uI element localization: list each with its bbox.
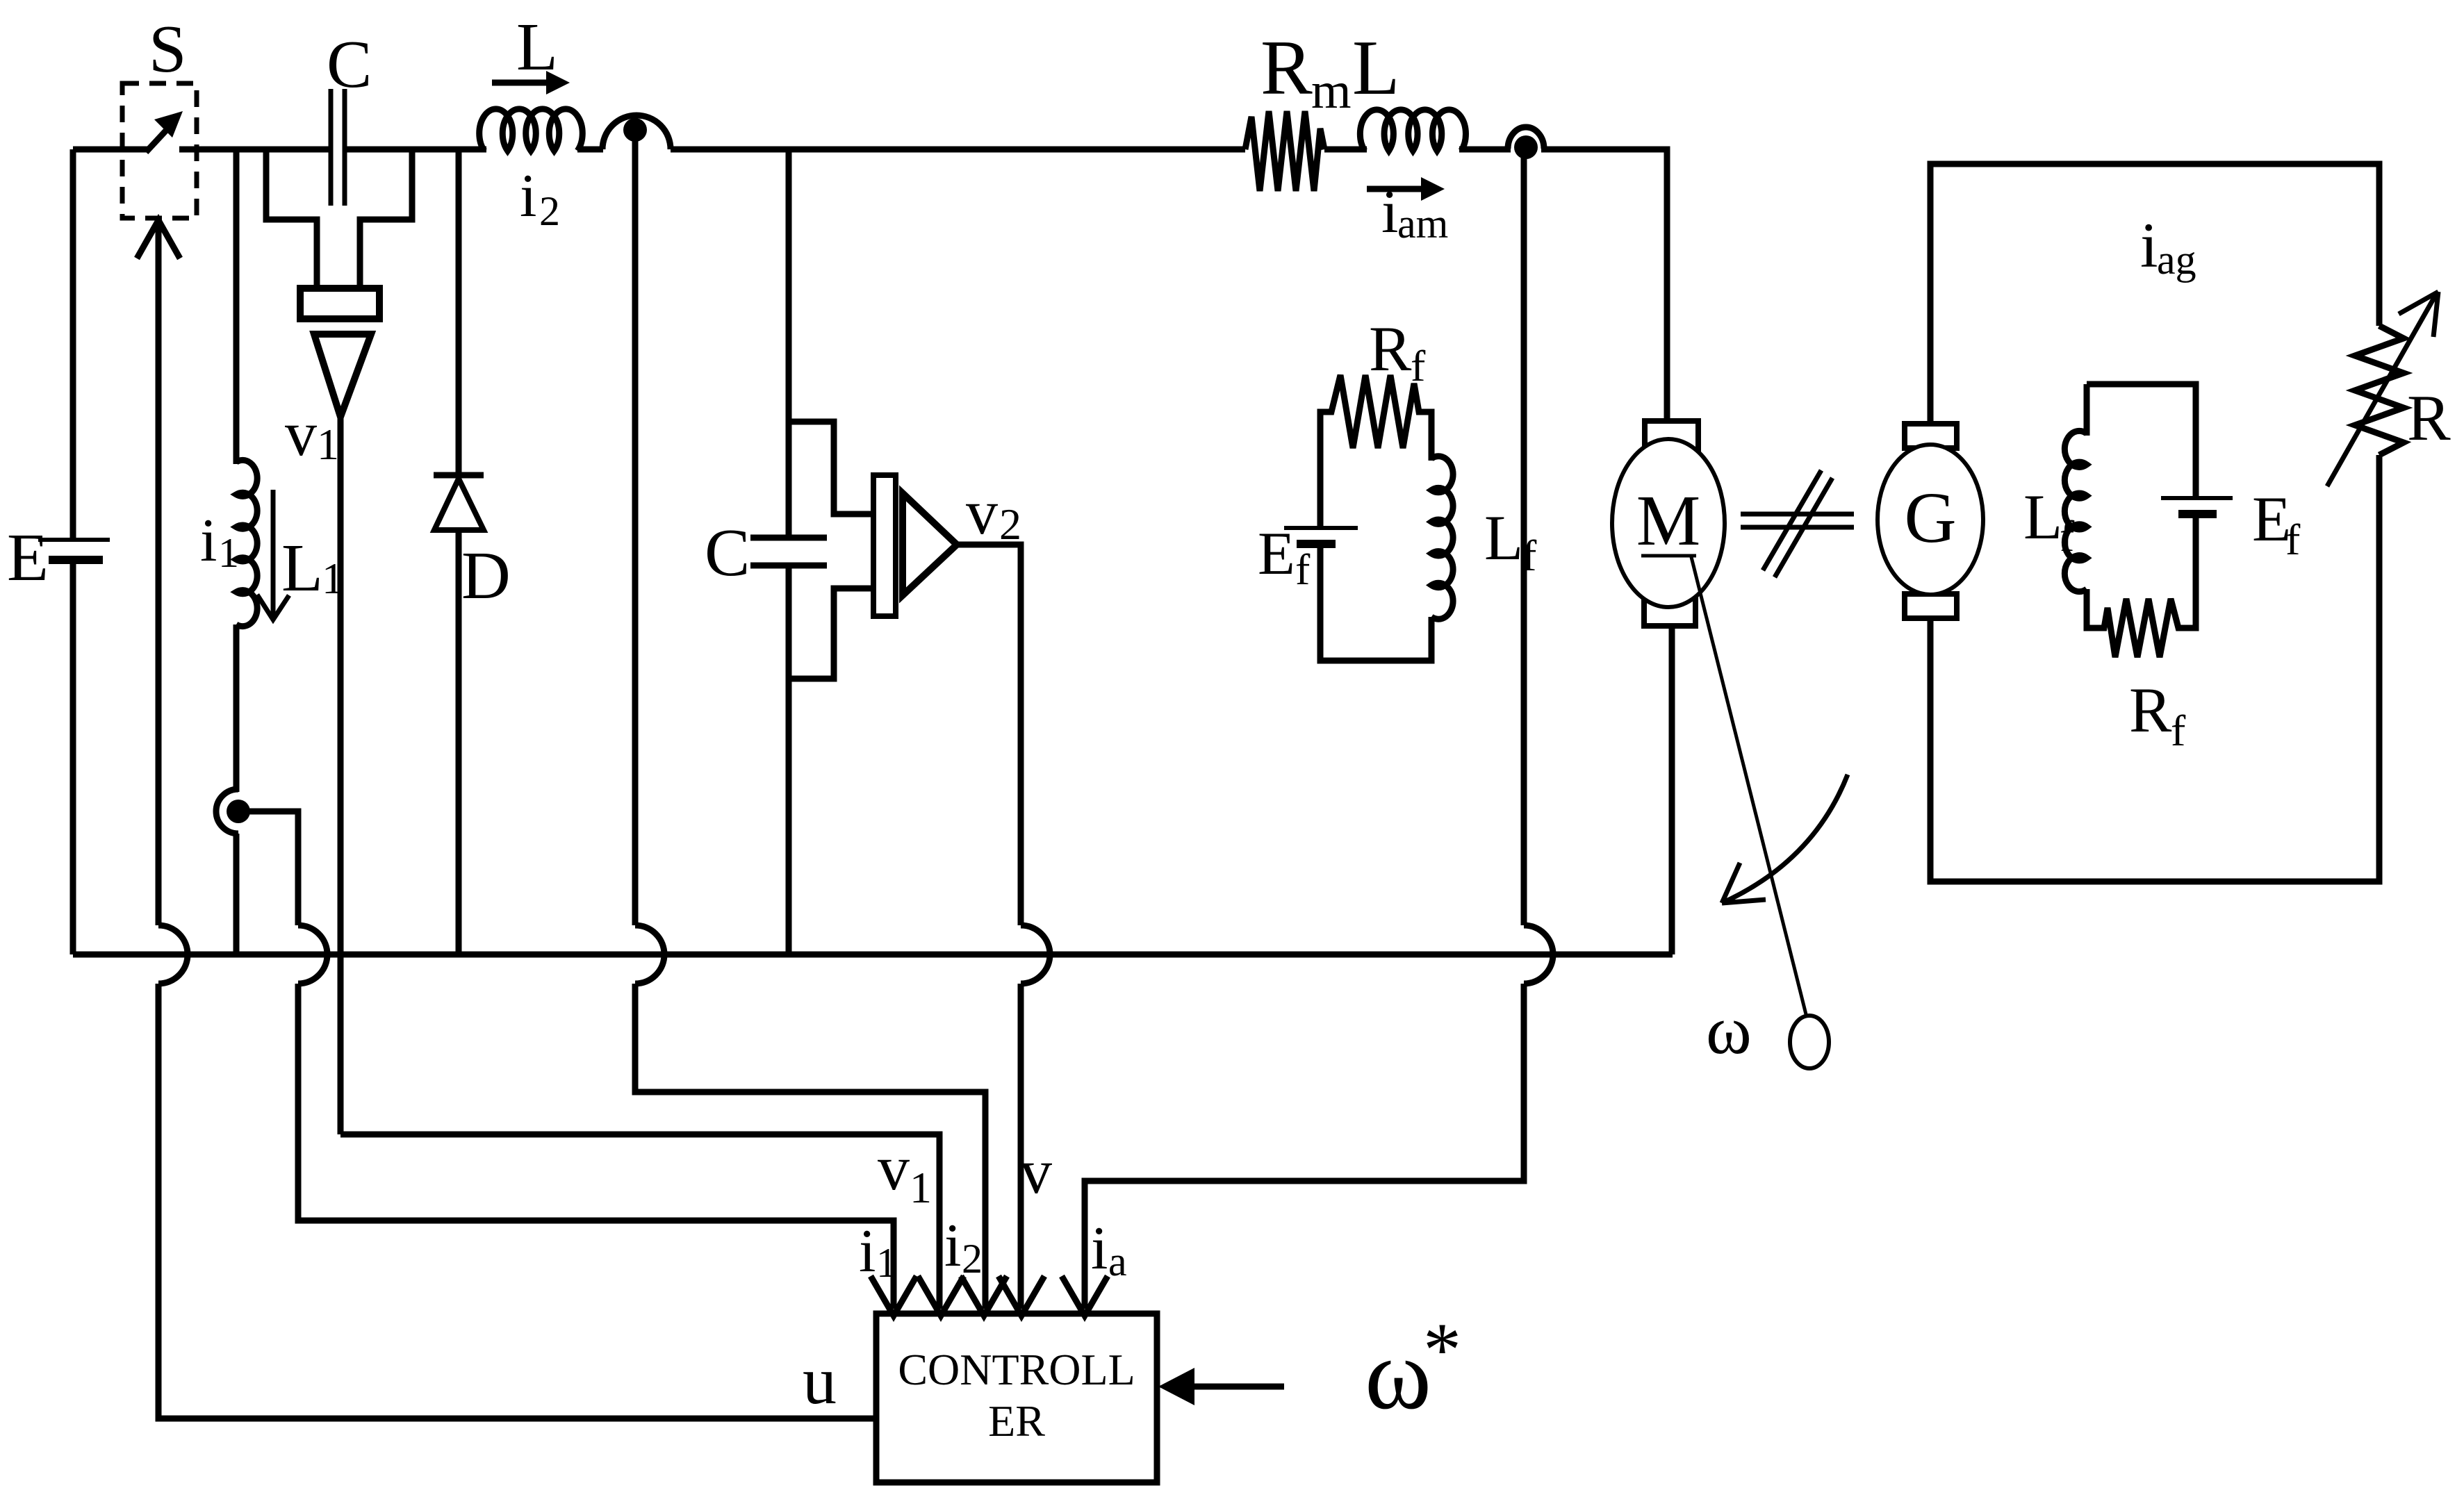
svg-text:i: i: [859, 1218, 876, 1285]
arrowhead i1 input into controller: [871, 1276, 917, 1316]
svg-text:E: E: [7, 520, 49, 595]
generator G body ellipse: [1878, 445, 1983, 595]
arrowhead i2 input into controller: [961, 1276, 1007, 1316]
wire: left vertical to battery E: [70, 149, 76, 540]
wire: branch down to diode D: [456, 149, 462, 475]
v2 triangle: [903, 493, 957, 595]
omega* reference arrow: [1194, 1384, 1284, 1390]
node dot of ia sensor: [1514, 135, 1538, 159]
node dot of i2 sensor: [623, 118, 647, 142]
rotation arrow omega: [1722, 775, 1848, 903]
svg-text:ω: ω: [1706, 991, 1752, 1068]
switch S blade: [146, 123, 173, 152]
svg-text:ω: ω: [1365, 1318, 1431, 1430]
svg-text:C: C: [705, 515, 750, 590]
wire: Rm to L armature coil: [1324, 147, 1367, 153]
current arrow for L1 (downward): [271, 490, 276, 617]
svg-text:R: R: [2407, 382, 2451, 454]
wire: top bus from capacitor C to inductor L: [345, 147, 486, 153]
diode D triangle: [434, 479, 484, 530]
svg-text:i: i: [2140, 210, 2158, 281]
wire: v1 signal run to controller: [340, 1134, 939, 1309]
wire: capacitor C2 to bottom bus: [786, 565, 792, 954]
wire: diode D to bottom bus: [456, 530, 462, 954]
resistor Rf (gen field): [2087, 514, 2196, 657]
hop of v line over bottom bus: [1021, 925, 1050, 984]
shaft slash marks: [1763, 470, 1832, 577]
shaft double line between M and G: [1741, 514, 1854, 527]
svg-text:ER: ER: [988, 1396, 1045, 1446]
inductor L (armature) coil: [1360, 110, 1465, 151]
svg-text:1: 1: [910, 1163, 932, 1212]
wire: v1 funnel right arm: [360, 149, 412, 288]
switch S dashed box: [122, 83, 197, 218]
svg-text:am: am: [1397, 201, 1448, 247]
svg-text:2: 2: [539, 188, 560, 234]
wire: i1 sensor to bottom bus: [233, 834, 240, 954]
tachometer sensor ellipse: [1790, 1016, 1829, 1068]
svg-text:2: 2: [962, 1236, 983, 1282]
tachometer rod from M: [1691, 557, 1807, 1017]
current arrow iam: [1367, 186, 1424, 192]
wire: branch down to L1: [233, 149, 240, 464]
wire: v1 signal down across bottom bus to controller run: [338, 417, 344, 1134]
hop of i2 line over bottom bus: [635, 925, 664, 984]
svg-text:i: i: [200, 507, 217, 574]
v1 triangle: [314, 334, 371, 417]
wire: coil to ia sensor: [1459, 147, 1511, 153]
wire: v1 funnel left arm: [266, 149, 317, 288]
battery Ef (gen field) long plate: [2161, 496, 2233, 500]
svg-text:E: E: [1258, 520, 1295, 588]
svg-text:1: 1: [876, 1240, 897, 1286]
current sensor hop arc for i2: [602, 115, 671, 149]
generator G bottom brush box: [1905, 594, 1957, 618]
battery Ef (gen field) short plate: [2178, 510, 2217, 518]
svg-text:u: u: [803, 1343, 837, 1419]
wire: top bus left segment from E corner to switch pivot: [73, 147, 148, 153]
controller box: [876, 1314, 1157, 1482]
svg-text:f: f: [1411, 341, 1426, 390]
current sensor arc for i1: [216, 789, 238, 834]
wire: motor field loop bottom: [1320, 544, 1431, 661]
motor M body ellipse: [1612, 439, 1725, 607]
wire: i1 tap from sensor dot: [238, 811, 298, 925]
svg-text:1: 1: [317, 420, 339, 469]
svg-text:v: v: [966, 477, 998, 547]
svg-text:1: 1: [218, 530, 239, 576]
wire: ia signal to controller: [1085, 984, 1524, 1309]
wire: top bus from i2 sensor to Rm resistor: [671, 147, 1245, 153]
svg-text:L: L: [2023, 481, 2062, 552]
svg-text:2: 2: [999, 499, 1021, 549]
svg-text:C: C: [327, 27, 372, 102]
capacitor C plates (series in top wire): [331, 89, 345, 206]
wire: branch down to capacitor C (2nd): [786, 149, 792, 538]
svg-text:i: i: [1381, 179, 1398, 246]
battery Ef (motor field) long plate: [1284, 526, 1358, 530]
wire: motor M to bottom bus: [1669, 626, 1675, 954]
svg-text:ag: ag: [2157, 237, 2196, 283]
hop of u line over bottom bus: [158, 925, 188, 984]
svg-text:f: f: [2060, 511, 2075, 561]
variable resistor R zigzag: [2355, 326, 2404, 455]
wire: battery E down to bottom bus: [70, 560, 76, 954]
motor M top brush box: [1645, 421, 1698, 450]
hop of ia line over bottom bus: [1524, 925, 1553, 984]
wire: ia sensor to right corner, down to motor M: [1541, 149, 1667, 421]
diode D cathode bar: [434, 472, 484, 479]
arrowhead ia input into controller: [1062, 1276, 1108, 1316]
v2 lower tap: [789, 588, 874, 679]
svg-text:v: v: [878, 1132, 910, 1203]
v2 gate bar: [873, 475, 896, 616]
svg-text:f: f: [1295, 545, 1311, 594]
wire: u control line from controller to switch: [156, 220, 162, 925]
svg-text:m: m: [1311, 63, 1352, 119]
control arrowhead u at switch: [137, 220, 180, 258]
svg-text:L: L: [1484, 502, 1523, 573]
switch S blade arrowhead: [154, 111, 183, 138]
wire: top bus from switch to capacitor C: [179, 147, 331, 153]
bottom bus wire: [73, 952, 1673, 958]
battery E long plate: [38, 538, 110, 542]
current direction arrow for L: [492, 80, 550, 86]
svg-text:i: i: [520, 163, 536, 230]
resistor Rm zigzag: [1245, 111, 1324, 191]
svg-text:R: R: [2129, 675, 2172, 745]
wire: top bus L to i2 sensor: [577, 147, 603, 153]
generator G top brush box: [1905, 424, 1957, 448]
svg-text:R: R: [1369, 313, 1412, 384]
wire: R down, loop bottom, back to G: [1930, 455, 2379, 882]
svg-text:D: D: [461, 538, 511, 613]
svg-text:a: a: [1108, 1239, 1127, 1284]
svg-text:R: R: [1260, 25, 1313, 111]
inductor L coil: [479, 109, 583, 151]
wire: L1 coil to i1 sensor: [233, 625, 240, 792]
svg-text:i: i: [1091, 1215, 1108, 1282]
wire: G top lead and loop top: [1930, 164, 2379, 424]
svg-text:f: f: [2171, 706, 2186, 755]
svg-text:L: L: [516, 10, 558, 85]
capacitor C (2nd) plates: [750, 538, 827, 565]
svg-text:G: G: [1904, 478, 1956, 558]
battery E short plate: [49, 556, 103, 564]
node dot of i1 sensor: [227, 800, 250, 823]
battery Ef (motor field) short plate: [1297, 540, 1336, 548]
wire: gen field top: [2087, 384, 2196, 498]
arrow through R: [2327, 292, 2438, 486]
svg-text:i: i: [944, 1212, 961, 1280]
motor M bottom brush box: [1644, 599, 1695, 626]
svg-text:*: *: [1423, 1307, 1461, 1392]
wire: ia signal from sensor down: [1521, 148, 1527, 925]
inductor Lf (motor field) coil: [1431, 456, 1453, 619]
current sensor hop arc for ia: [1508, 127, 1544, 149]
svg-text:v: v: [1020, 1136, 1052, 1207]
svg-text:CONTROLL: CONTROLL: [898, 1345, 1135, 1394]
arrowhead v1 input into controller: [918, 1276, 964, 1316]
v1 gate rectangle: [300, 288, 379, 319]
hop of i1 line over bottom bus: [298, 925, 327, 984]
inductor Lf (gen field) coil: [2084, 384, 2090, 436]
svg-text:S: S: [149, 12, 187, 87]
svg-text:L: L: [1352, 25, 1399, 111]
wire: i2 signal from sensor dot down: [632, 130, 639, 925]
arrowhead v input into controller: [999, 1276, 1044, 1316]
inductor L1 coil (vertical): [236, 460, 257, 626]
v2 upper tap: [789, 422, 874, 514]
svg-text:M: M: [1636, 481, 1700, 561]
resistor Rf (motor field): [1320, 375, 1431, 528]
svg-text:v: v: [285, 398, 317, 469]
wire: v2 output to v signal line: [953, 545, 1021, 925]
svg-text:f: f: [2285, 515, 2301, 564]
